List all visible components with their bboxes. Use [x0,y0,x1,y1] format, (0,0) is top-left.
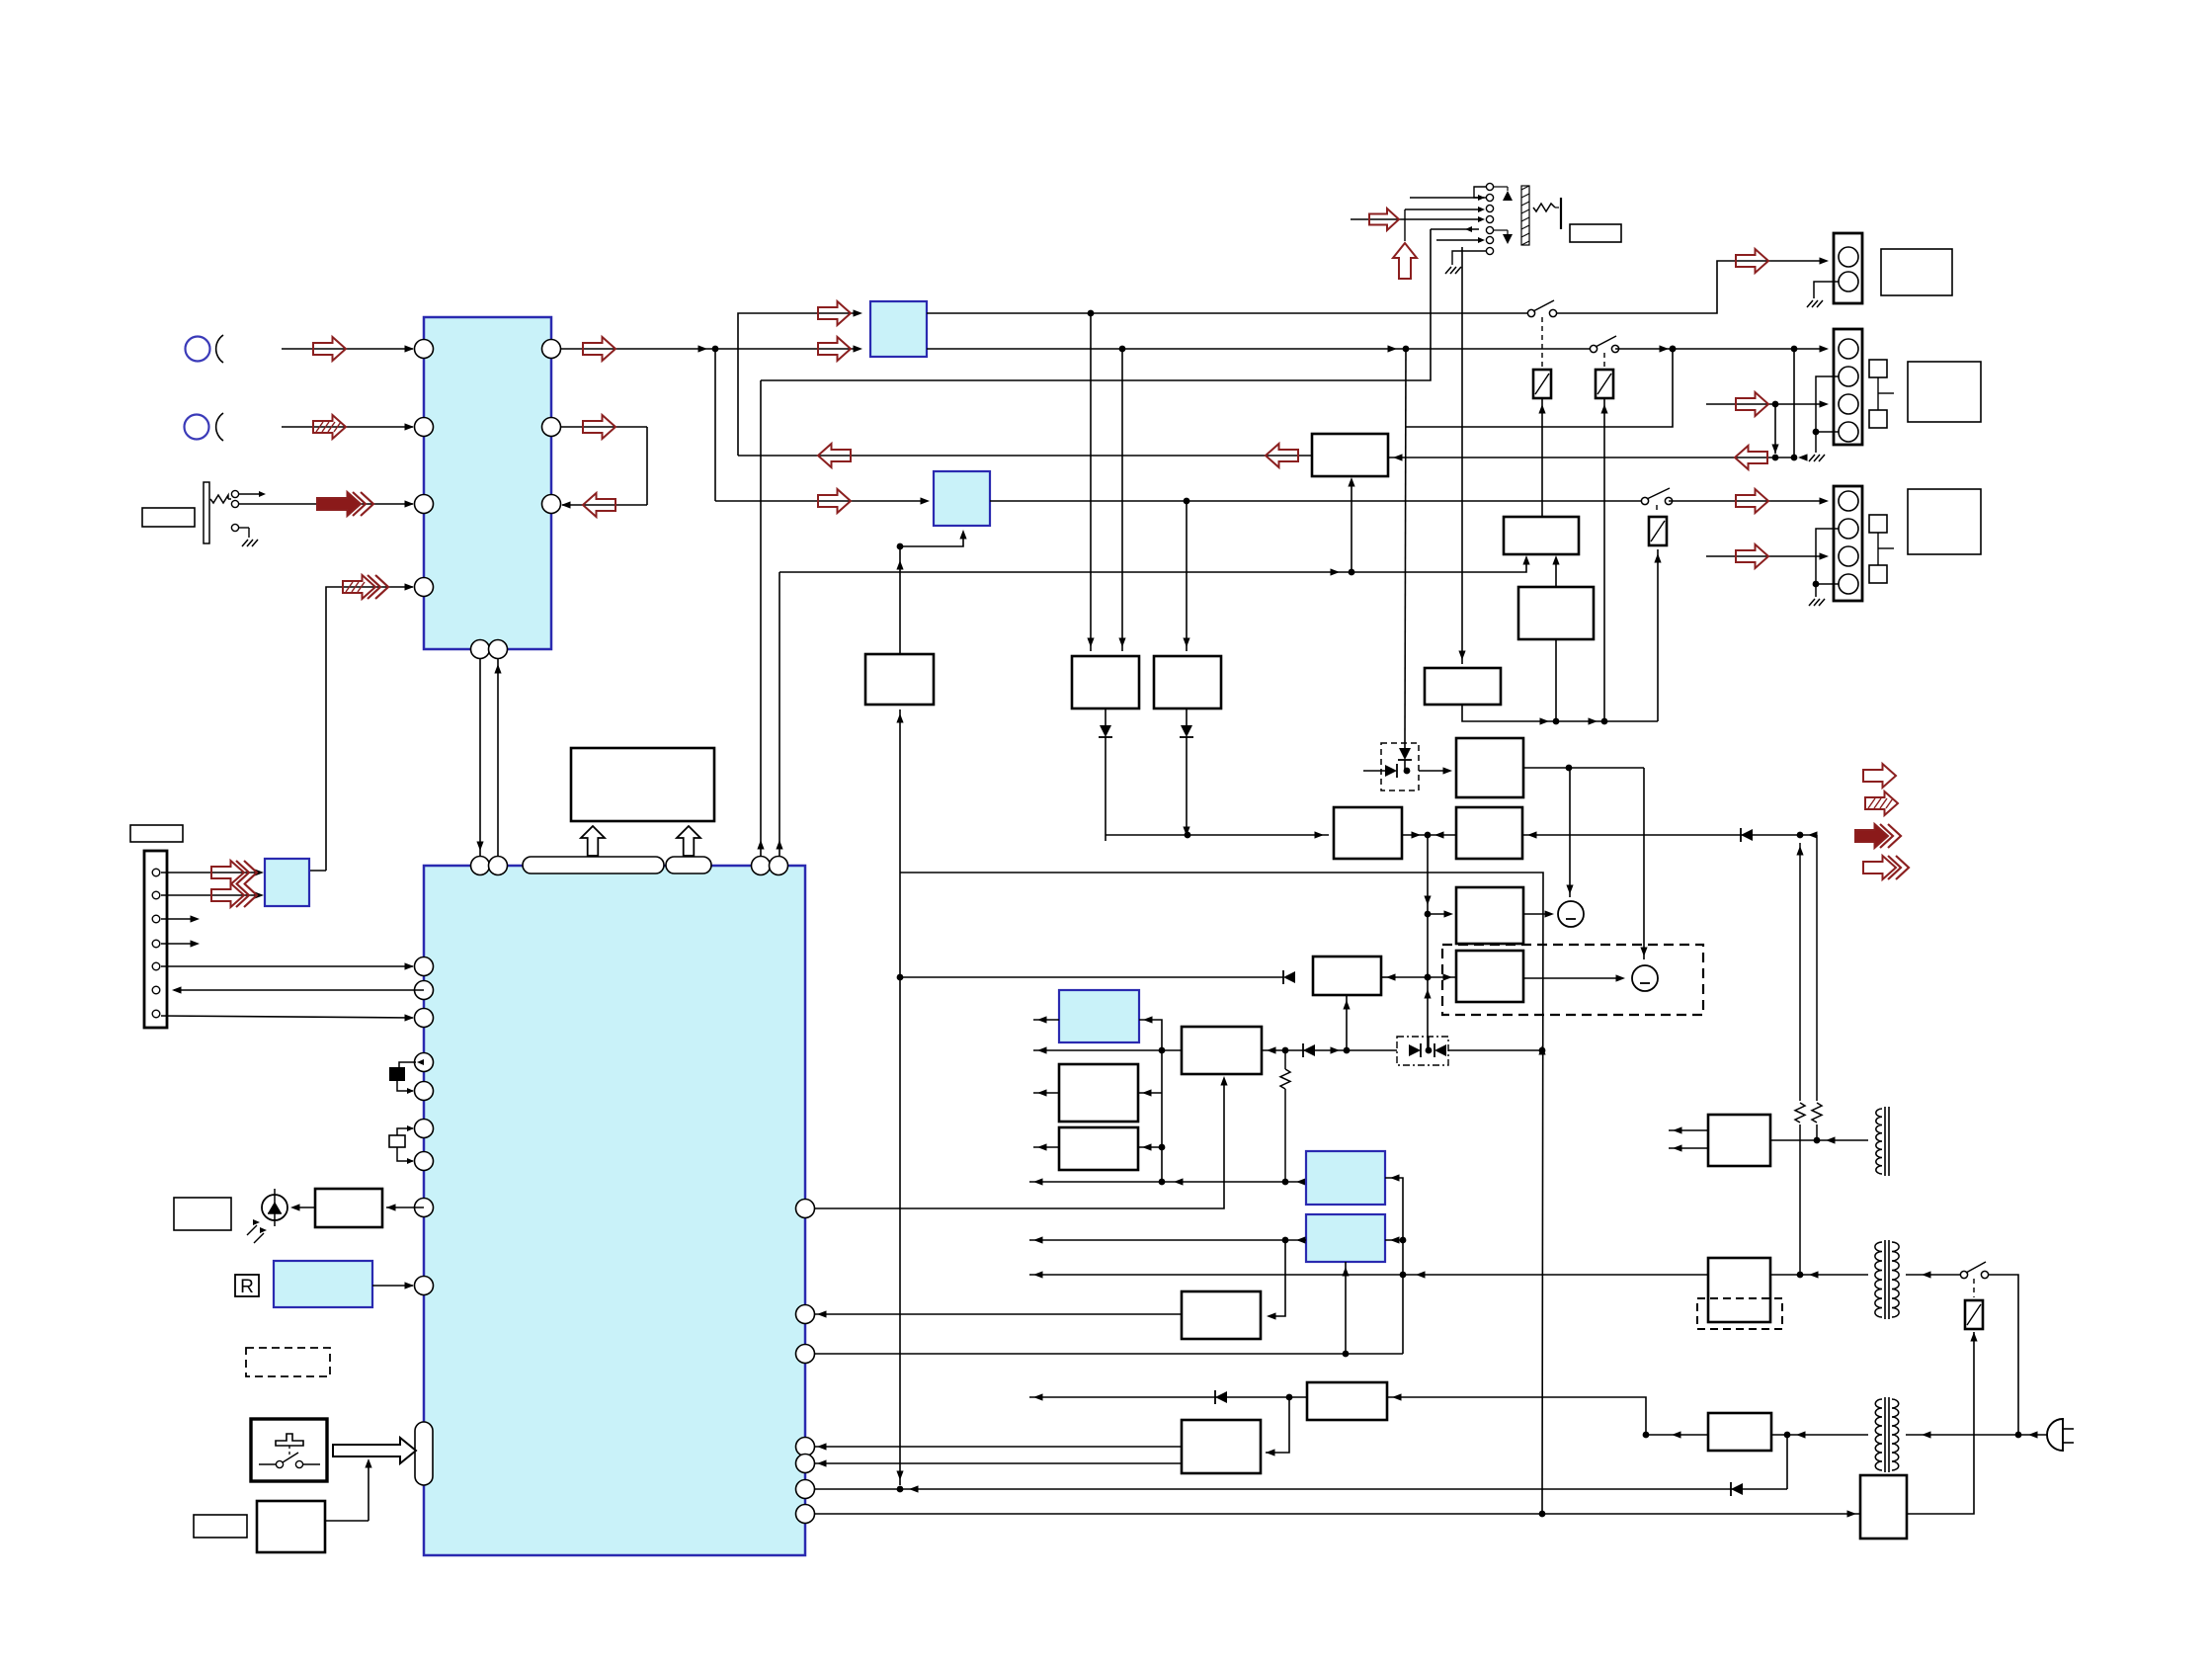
relay RY3 link [1656,505,1658,514]
CN1 ground wire [1814,282,1839,298]
hp wire t5 out [1431,228,1479,230]
relay RY2 link [1603,353,1605,367]
IC2 bus stadium b [666,857,711,874]
transformer T2 winding L [1875,1242,1882,1317]
sense box R4 [1313,957,1381,995]
key buffer block [265,859,309,906]
wire row989 [900,976,1283,978]
node rail a [1088,310,1095,317]
crystal X1 [389,1067,405,1081]
cyan dc block A [1059,990,1139,1042]
label box standby [194,1515,247,1538]
label box CN1 [1881,249,1952,295]
wire CN2 row409 [1706,403,1825,405]
label box phones [142,508,195,527]
power key symbol [276,1434,303,1446]
signal arrow up hp [1393,243,1417,279]
signal arrow filled phones [317,492,361,516]
hp jack terminals [1486,183,1493,190]
phones jack detect wire [239,493,263,495]
wire pin1330 to T1d [814,1313,1182,1315]
wire key t7 to IC2 [161,1016,413,1018]
CN3 square b [1869,565,1887,583]
IC2 key stadium pin [415,1422,433,1485]
signal arrow hp in [1369,208,1399,230]
reg output rail to B+ [900,873,1543,1514]
rect box R2 [1456,807,1522,859]
legend arrow open chev [1863,856,1896,879]
signal arrow conn2 b [1736,392,1768,416]
diode D1 [1105,708,1106,725]
cyan dc block C [1306,1151,1385,1205]
CN2 pin 1 [1839,339,1858,359]
wire swIC out2 [927,348,1594,350]
IR receiver box [315,1189,382,1227]
wire R2 to trans rail [1522,834,1817,836]
IC2 top pin a [752,857,771,875]
IC2 right pin y1481 [796,1455,815,1473]
ground CN2 [1809,455,1815,461]
meter M1 [1558,901,1584,927]
transformer T1 winding [1876,1109,1882,1174]
connector CN1 [1834,233,1862,303]
wire DAC bottom feed [900,534,963,546]
IC2 system control block [424,866,805,1555]
power row 1507 [814,1488,1787,1490]
dashdot diode pair box [1397,1037,1448,1065]
wire J1 to IC1 [282,348,413,350]
diode D7 right [1363,770,1385,772]
wire S1 stub [1033,1092,1059,1094]
protect box P [1504,517,1579,554]
CN2 square link [1877,377,1879,410]
x1445 sense chain [1427,835,1429,1050]
phones jack body [204,482,209,543]
IC2 left pin y1301 [415,1277,434,1295]
CN2 gnd link [1816,376,1839,432]
IC2 right pin y1532 [796,1505,815,1524]
signal arrow out1 [583,337,615,361]
res divider a [1799,843,1801,1101]
wire row579 from IC2 [779,559,1526,572]
wire X1 to pin [397,1081,413,1091]
wire sw2 to conn2 [1615,348,1825,350]
wire IC1 bottom b to IC2 [497,658,499,857]
wire R4 to box6 [1396,976,1456,978]
hp wire t4 in [1351,218,1482,220]
wire R4 stub [1381,976,1396,978]
IC2 left pin y1142 [415,1120,434,1138]
power key big arrow [333,1438,416,1463]
relay RY4 [1965,1300,1983,1329]
diode D11 [1434,1044,1446,1056]
drive box T2d [1182,1420,1261,1473]
wire Q to P [1555,559,1557,587]
wire rail b down [1121,349,1123,651]
phones jack terminals [231,490,238,497]
wire pin1481 to T2d [814,1462,1182,1464]
wire down to meter2 [1643,768,1645,959]
signal arrow to conn1 [1736,249,1768,273]
transformer T2 winding R [1892,1242,1899,1317]
IC2 right pin y1223 [796,1200,815,1218]
diode D9 [1303,1044,1315,1056]
wire to ref box5 [1428,913,1450,915]
bus arrow up b [677,826,700,856]
label box CN2 [1908,362,1981,422]
jack detect box [1425,668,1501,705]
relay RY1 link [1541,317,1543,367]
signal arrow out2 [583,415,615,439]
key conn terminal y955 [152,940,160,948]
signal arrow fb in [818,301,851,325]
switch IC block [870,301,927,357]
label box hp [1570,224,1621,242]
wire rail a down [1090,313,1092,651]
key conn terminal y883 [152,869,160,876]
IC2 right pin y1370 [796,1345,815,1364]
input jack circle J2 [185,415,209,440]
trans box F1 [1708,1115,1770,1166]
wire tap down x1422 [1405,349,1406,743]
transformer T2 core [1884,1240,1886,1319]
hp jack sleeve bar [1560,198,1562,229]
diode D8 [1283,971,1295,983]
wire S2 stub [1033,1146,1059,1148]
wire IC1 bottom a to IC2 [479,658,481,857]
dcdc box [1182,1027,1262,1074]
IC2 left pin y978 [415,957,434,976]
node tap junction [1403,346,1410,353]
IC2 right pin y1507 [796,1480,815,1499]
power row 1255 [1029,1239,1306,1241]
IC1 pin 4 [415,578,434,597]
power row 1196 [1029,1181,1306,1183]
dashed box F2opt [1697,1298,1782,1329]
wire dcA right [1139,1020,1162,1050]
wire reg to DAC node [899,546,901,654]
IC2 bus stadium a [523,857,664,874]
snubber box R5 [1307,1382,1387,1420]
wire key t1 to buffer [161,872,261,874]
wire pair up [1428,1037,1430,1050]
power key box [251,1419,327,1481]
wire R5 right [1387,1397,1646,1435]
wire S1 right [1138,1092,1162,1094]
wire key t4 stub [161,943,196,945]
wire F1 stub b [1669,1147,1708,1149]
hp jack break contact [1503,234,1513,244]
wire CN3 row563 [1706,555,1825,557]
rect box R1 [1334,807,1402,859]
CN3 pin 2 [1839,519,1858,539]
power box B [1072,656,1139,708]
IC1 pin 7 [542,495,561,514]
wire dcC right [1385,1178,1403,1354]
wire T2 to SW4 [1906,1274,1960,1276]
wire R1 to R2 [1402,834,1456,836]
transformer T1 core [1884,1107,1886,1176]
wire row409 to row463 [1774,404,1776,454]
IC2 bottom pin b [489,857,508,875]
wire standby to arrow [368,1461,369,1521]
wire F1 stub a [1669,1129,1708,1131]
wire R3 out [1523,767,1644,769]
wire key t3 stub [161,918,196,920]
wire standby link [325,1520,369,1522]
CN2 square a [1869,360,1887,377]
ref box6 [1456,951,1523,1002]
IC2 left pin y1175 [415,1152,434,1171]
wire after sw1 to conn [1553,261,1825,313]
wire rail c down [1186,501,1188,651]
switch SW3 [1641,497,1648,504]
wire top to meter1 [1569,768,1571,897]
connector CN3 [1834,486,1862,601]
wire RY1 to protector [1541,398,1543,517]
power row 1290 [1029,1274,1708,1276]
CN1 pin 1 [1839,247,1858,267]
key conn terminal y978 [152,962,160,970]
diode D6 down [1404,743,1406,748]
wire row432 return [1405,349,1673,427]
relay RY3 [1649,517,1667,545]
wire IC2 to IR box [386,1206,424,1208]
wire pin1370 row [814,1353,1403,1355]
signal arrow conn3 b [1736,544,1768,568]
bus arrow up a [581,826,605,856]
wire pin1464 to T2d [814,1446,1182,1448]
IC2 left pin y1222 [415,1199,434,1217]
signal arrow to swIC [818,337,851,361]
wire IC1 out1 [561,348,715,350]
power row 1414 [1029,1396,1307,1398]
regulator box A [865,654,934,705]
AC plug [2047,1419,2063,1451]
drive box Q [1518,587,1594,639]
signal arrow conn3 a [1736,489,1768,513]
CN3 pin 4 [1839,574,1858,594]
wire det2 bottom bus [1462,705,1658,721]
wire jack t5 to IC2 pin [761,229,1431,380]
IC1 pin 2 [415,418,434,437]
IC1 pin 3 [415,495,434,514]
signal arrow row507 [818,489,851,513]
detect box [1312,434,1388,476]
diode D13 [1731,1483,1743,1495]
dashed standby group [1442,945,1703,1015]
power key switch [276,1460,283,1467]
label box CN3 [1908,489,1981,554]
CN3 gnd link [1816,529,1839,584]
wire det in row463 [1389,457,1794,458]
wire dcdc left stub [1033,1049,1182,1051]
sub box S2 [1059,1127,1138,1170]
standby box [257,1501,325,1552]
hp jack make contact [1503,191,1513,201]
relay RY4 link [1973,1279,1975,1297]
signal arrow return c [818,444,851,467]
legend arrow plain [1863,764,1896,788]
key conn terminal y906 [152,891,160,899]
wire dcD bottom [1345,1262,1347,1354]
IC1 pin 8 [471,640,490,659]
hp jack t1 t2 link [1474,187,1486,198]
wire dcA stub [1033,1019,1059,1021]
wire row507 to DAC [715,500,926,502]
wire pin1223 to dcdc [814,1079,1224,1208]
wire swIC out top [927,312,1531,314]
hp wire t2 feed [1410,197,1484,199]
CN3 square link [1877,533,1879,565]
legend arrow filled chev [1855,824,1888,848]
diode D12 [1215,1391,1227,1403]
node rail c [1184,498,1190,505]
wire remote to IC2 [372,1285,413,1287]
wire box6 to meter2 [1523,977,1621,979]
relay RY2 [1596,370,1613,398]
key conn terminal y1026 [152,1010,160,1018]
wire IC2 to key t6 [174,989,424,991]
wire T3 to plug [1906,1434,2047,1436]
rect box F3 [1708,1413,1771,1451]
wire dcD right [1385,1239,1403,1241]
phones jack ground wire [239,527,249,529]
wire buffer to IC1 pin4 [309,870,326,872]
IC1 pin 9 [489,640,508,659]
wire dcdc right [1262,1049,1397,1051]
wire phones to IC1 [239,503,413,505]
wire cell to box R3 [1419,770,1448,772]
wire IC2 top pin a up [760,380,762,857]
diode D5 [1741,829,1753,841]
signal arrow return b [1266,444,1298,467]
wire DAC out row507 [990,500,1645,502]
wire box5 to meter1 [1523,913,1551,915]
wire pair to B+ [1448,1049,1542,1051]
DAC block [934,471,990,526]
remote sensor block [274,1261,372,1307]
dashed option box [246,1348,330,1376]
label box remote [174,1198,231,1230]
hp wire mute link [1404,209,1406,241]
CN1 pin 2 [1839,272,1858,291]
key connector bar [144,851,167,1028]
signal arrow return a [1735,446,1767,469]
wire junction down to row507 [714,349,716,501]
wire out1 to SW IC [715,348,859,350]
CN2 pin 3 [1839,394,1858,414]
hp wire t3 [1405,208,1482,210]
wire J2 to IC1 [282,426,413,428]
key conn terminal y930 [152,915,160,923]
node rail b [1119,346,1126,353]
signal arrow key2 [211,883,244,907]
wire F3 left [1646,1434,1708,1436]
sense vertical x1176 [1161,1050,1163,1182]
input jack circle J1 [186,337,210,362]
wire key t2 to buffer [161,894,261,896]
wire feedback up x747 [738,313,859,456]
wire key t5 to IC2 [161,965,413,967]
wire relay feed [1907,1332,1974,1514]
wire drive link [1266,1397,1289,1453]
diode D10 [1409,1044,1421,1056]
wire IC2 top pin b up [778,572,780,857]
wire F1 to T1 [1770,1139,1868,1141]
IC1 pin 5 [542,340,561,359]
reg vertical x911 [899,709,901,1485]
ground phones [242,540,248,546]
IC1 signal processor block [424,317,551,649]
IC1 pin 6 [542,418,561,437]
IC2 left pin y1075 [415,1053,434,1072]
IC2 bottom pin a [471,857,490,875]
memory box [571,748,714,821]
power box C [1154,656,1221,708]
wire R4 bottom [1346,995,1348,1050]
signal arrow hatched in R [313,415,346,439]
IC2 left pin y1030 [415,1009,434,1028]
relay RY1 [1533,370,1551,398]
wire X2 to pin [397,1147,413,1161]
wire IR to LED [293,1206,315,1208]
hp wire t6 [1436,239,1482,241]
hp jack resistor [1533,204,1555,211]
wire SW4 to AC [1989,1275,2018,1435]
resistor divider x1301 [1284,1051,1286,1069]
switch SW4 [1960,1271,1967,1278]
ground hp jack [1445,267,1451,274]
node out1 junction [712,346,719,353]
wire RY3 coil feed [1657,549,1659,721]
wire jack det down [1461,247,1463,664]
res divider b [1816,835,1818,1101]
signal arrow key1 [211,861,244,884]
ground CN1 [1807,300,1813,307]
svg-text:R: R [240,1277,254,1297]
ref box5 [1456,887,1523,944]
wire det out row461 [738,455,1312,457]
wire F3 to T3 [1771,1434,1868,1436]
ground CN3 [1809,599,1815,606]
rect/filter box F2 [1708,1258,1770,1322]
IC2 left pin y1104 [415,1082,434,1101]
wire 1507 up [1786,1435,1788,1489]
wire Q to bus [1555,639,1557,721]
switch SW2 [1590,345,1597,352]
wire rail to drive box [1269,1240,1285,1316]
IC1 pin 1 [415,340,434,359]
CN2 pin 4 [1839,422,1858,442]
legend arrow hatched [1865,791,1898,815]
wire S2 right [1138,1146,1162,1148]
wire det box feed up [1351,481,1352,572]
label box key conn [130,825,183,842]
transformer T3 winding R [1892,1399,1899,1470]
wire row463 vert [1793,349,1795,458]
key conn terminal y1002 [152,986,160,994]
signal arrow analog in L [313,337,346,361]
IC2 right pin y1464 [796,1438,815,1456]
signal arrow return in3 [583,493,615,517]
wire sw3 to conn3 [1669,500,1825,502]
CN3 square a [1869,515,1887,533]
IC2 top pin b [770,857,788,875]
CN2 square b [1869,410,1887,428]
connector CN2 [1834,329,1862,445]
hp jack contact bar [1521,186,1529,245]
